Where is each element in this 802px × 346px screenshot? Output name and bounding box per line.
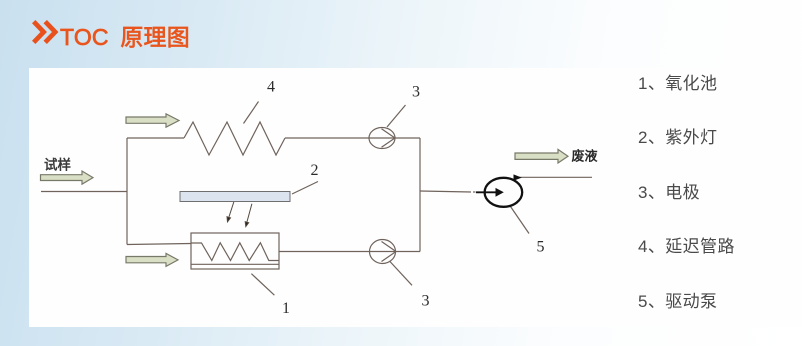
UV lamp bar 2: [180, 192, 290, 202]
oxidation box zigzag: [191, 243, 279, 261]
electrode bottom arrowhead: [382, 242, 397, 262]
wire: top branch to delay coil: [127, 137, 184, 139]
pump 5: [485, 178, 523, 207]
svg-text:5: 5: [537, 239, 545, 256]
UV ray arrow right: [247, 204, 252, 222]
pointer line label 3 bottom: [390, 261, 413, 285]
wire: small dash before pump: [473, 191, 476, 193]
pointer line label 2: [292, 182, 318, 195]
block arrow top branch: [126, 114, 179, 127]
pointer line label 1: [251, 274, 274, 296]
svg-text:3: 3: [412, 84, 420, 101]
pump outlet arrowhead: [514, 174, 522, 180]
svg-text:试样: 试样: [44, 157, 71, 173]
svg-text:废液: 废液: [572, 149, 598, 164]
background panel: [29, 68, 802, 327]
svg-text:2: 2: [311, 162, 319, 179]
wire: middle branch to pump: [420, 191, 471, 192]
wire: pump top outlet: [517, 176, 592, 178]
pointer line label 4: [244, 102, 259, 124]
UV ray arrow left: [227, 202, 252, 227]
wire: into oxidation box: [127, 244, 191, 245]
delay pipe coil 4 (zigzag): [184, 122, 285, 155]
svg-text:4: 4: [267, 79, 275, 96]
label texts: [267, 79, 545, 318]
electrode top arrowhead: [382, 129, 396, 148]
block arrow waste out: [515, 149, 568, 163]
pointer line label 3 top: [387, 105, 406, 127]
legend item 1: [638, 69, 717, 94]
legend item 5: [638, 287, 717, 312]
legend item 4: [638, 232, 735, 257]
wire: sample inlet line: [41, 191, 127, 193]
wire: left vertical of loop: [126, 138, 128, 245]
block arrow bottom branch: [126, 253, 178, 266]
legend item 3: [638, 178, 700, 203]
wire: bottom branch from box to electrode: [279, 251, 420, 253]
svg-text:3: 3: [422, 293, 430, 310]
block arrow sample in: [41, 114, 569, 267]
electrode bottom circle: [370, 240, 396, 264]
oxidation box inner bottom line: [191, 263, 279, 265]
oxidation box 1: [191, 233, 279, 269]
wire: right vertical of loop: [419, 138, 421, 252]
pointer line label 5: [511, 207, 530, 234]
legend item 2: [638, 123, 717, 148]
svg-text:1: 1: [282, 300, 290, 317]
pump inlet arrow: [476, 191, 496, 193]
wire: coil to top electrode: [285, 137, 420, 139]
title chevrons: [31, 20, 59, 46]
title text: [60, 18, 190, 52]
electrode top circle: [369, 128, 395, 149]
